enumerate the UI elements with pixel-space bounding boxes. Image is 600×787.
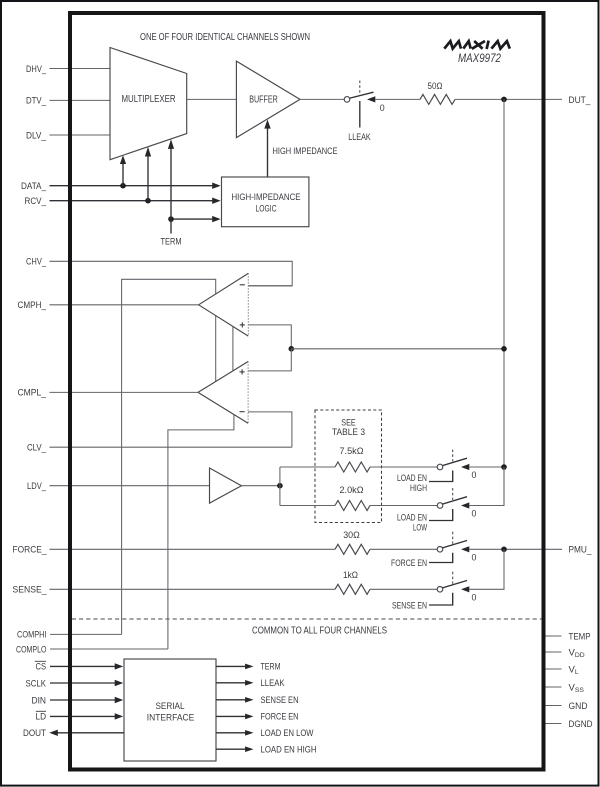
wire DATA_ branch to multiplexer (120, 155, 126, 186)
svg-text:CMPL_: CMPL_ (18, 388, 47, 399)
wire LOAD EN LOW switch to load junction (469, 467, 504, 506)
wire FORCE EN output (216, 714, 254, 720)
svg-text:SERIAL: SERIAL (156, 701, 185, 712)
wire LLEAK switch to 50ohm resistor (375, 98, 420, 100)
wire LDV junction to load resistors (279, 467, 281, 506)
label CLV_ (27, 443, 47, 454)
wire LOAD EN HIGH switch to DUT column (469, 466, 504, 468)
svg-text:TERM: TERM (261, 662, 281, 673)
svg-text:DATA_: DATA_ (21, 181, 47, 192)
label LOAD EN LOW output (261, 728, 314, 739)
wire comparator high plus input to DUT sense (248, 325, 291, 349)
switch LOAD EN LOW (429, 488, 469, 521)
wire COMPHI (50, 633, 122, 635)
svg-text:CS: CS (36, 662, 47, 673)
svg-text:HIGH IMPEDANCE: HIGH IMPEDANCE (273, 146, 338, 157)
svg-text:2.0kΩ: 2.0kΩ (340, 485, 364, 496)
wire SCLK input (50, 680, 123, 686)
pin VL (545, 664, 579, 676)
svg-text:HIGH-IMPEDANCE: HIGH-IMPEDANCE (232, 192, 301, 203)
svg-text:PMU_: PMU_ (569, 545, 593, 556)
resistor 1k (335, 570, 370, 594)
wire TERM output (216, 664, 254, 670)
pin VDD (545, 647, 585, 659)
svg-text:MULTIPLEXER: MULTIPLEXER (122, 94, 176, 105)
node LDV junction (277, 483, 283, 489)
svg-text:SCLK: SCLK (26, 678, 47, 689)
label LD (active low) (36, 711, 47, 722)
node PMU junction (501, 547, 507, 553)
label CS (active low) (35, 661, 46, 672)
svg-text:DIN: DIN (32, 695, 47, 706)
svg-text:1kΩ: 1kΩ (343, 570, 358, 581)
node DATA_ junction (120, 183, 126, 189)
wire COMPLO (50, 648, 168, 650)
buffer LDV driver (210, 468, 242, 503)
label TERM output (261, 662, 281, 673)
wire comparator low minus input (248, 412, 292, 447)
multiplexer MUX (110, 48, 187, 160)
wire CS input (50, 663, 123, 669)
label DLV_ (26, 130, 47, 141)
svg-text:MAX9972: MAX9972 (458, 53, 502, 65)
wire LD input (50, 713, 123, 719)
svg-text:COMPLO: COMPLO (16, 644, 47, 655)
label TERM (161, 237, 182, 248)
label ONE OF FOUR IDENTICAL CHANNELS SHOWN (140, 32, 310, 43)
wire SENSE EN switch to PMU junction (469, 549, 504, 589)
node TERM junction (168, 216, 174, 222)
wire TERM stub and branch to multiplexer (168, 139, 174, 233)
wire 30ohm to FORCE EN switch (370, 548, 437, 550)
svg-text:BUFFER: BUFFER (249, 95, 278, 106)
pin TEMP (545, 631, 591, 642)
svg-text:COMMON TO ALL FOUR CHANNELS: COMMON TO ALL FOUR CHANNELS (252, 625, 387, 636)
wire RCV_ branch to multiplexer (145, 147, 151, 201)
svg-text:DGND: DGND (569, 719, 593, 730)
wire 50ohm to DUT_ pin (455, 98, 562, 100)
label FORCE EN (391, 558, 427, 569)
comparator low (CMPL) (198, 362, 248, 424)
wire RCV_ input to high-impedance logic (50, 200, 213, 202)
label PMU_ (569, 545, 593, 556)
label SENSE EN output (261, 695, 299, 706)
wire multiplexer output to buffer (187, 98, 237, 100)
wire LLEAK output (216, 680, 254, 686)
wire TERM to high-impedance logic (171, 218, 213, 220)
label LOAD EN HIGH (397, 473, 427, 494)
svg-text:TEMP: TEMP (569, 631, 591, 642)
dashed box SEE TABLE 3 (315, 410, 382, 523)
svg-text:SENSE EN: SENSE EN (261, 695, 299, 706)
svg-text:CMPH_: CMPH_ (18, 300, 47, 311)
logo MAXIM (444, 41, 510, 49)
label 0 (FORCE EN contact) (472, 553, 477, 563)
svg-text:LOGIC: LOGIC (256, 204, 277, 215)
wire 7.5k resistor to LOAD EN HIGH switch (370, 466, 437, 468)
svg-text:HIGH: HIGH (410, 483, 427, 494)
svg-text:FORCE EN: FORCE EN (261, 712, 299, 723)
buffer U1 (236, 61, 300, 138)
label LDV_ (27, 481, 47, 492)
wire FORCE EN switch to PMU_ pin (469, 548, 562, 550)
wire comparator plus-input tie (232, 326, 234, 371)
svg-text:TABLE 3: TABLE 3 (332, 427, 365, 437)
label CMPH_ (18, 300, 47, 311)
svg-text:COMPHI: COMPHI (17, 630, 47, 641)
resistor 7.5k (335, 446, 370, 472)
wire DTV_ input (50, 99, 111, 101)
svg-text:DOUT: DOUT (23, 728, 46, 739)
svg-text:50Ω: 50Ω (428, 81, 443, 92)
svg-text:LLEAK: LLEAK (261, 678, 286, 689)
svg-text:DTV_: DTV_ (26, 96, 47, 107)
label SENSE_ (13, 585, 48, 596)
serial interface box (124, 659, 216, 761)
svg-text:LLEAK: LLEAK (348, 132, 371, 143)
svg-text:CHV_: CHV_ (26, 257, 47, 268)
wire to 2.0k resistor (280, 505, 335, 507)
wire COMPLO net vertical riser (168, 415, 234, 649)
wire LOAD EN HIGH output (216, 746, 254, 752)
wire LDV_ input (50, 485, 210, 487)
svg-text:DHV_: DHV_ (26, 64, 47, 75)
svg-text:SENSE EN: SENSE EN (392, 600, 427, 611)
dashed channel divider (72, 618, 542, 620)
switch SENSE EN (429, 572, 469, 605)
arrow TERM into high-impedance logic (212, 216, 221, 222)
label 0 (LOAD EN HIGH contact) (472, 470, 477, 480)
label MAX9972 (458, 53, 502, 65)
svg-text:DUT_: DUT_ (569, 95, 592, 106)
comparator high (CMPH) (199, 273, 249, 336)
wire CLV_ input (50, 446, 292, 448)
label CMPL_ (18, 388, 47, 399)
label COMMON TO ALL FOUR CHANNELS (252, 625, 387, 636)
node DUT sense junction (289, 346, 295, 352)
pin VSS (545, 682, 584, 694)
label 0 (LLEAK switch contact) (380, 103, 385, 113)
label DUT_ (569, 95, 592, 106)
node DUT junction (501, 97, 507, 103)
label LOAD EN HIGH output (261, 745, 317, 756)
node load junction (501, 464, 507, 470)
resistor 50ohm (420, 81, 455, 105)
svg-text:0: 0 (472, 509, 477, 519)
svg-text:CLV_: CLV_ (27, 443, 47, 454)
label LLEAK (348, 132, 371, 143)
svg-text:0: 0 (472, 470, 477, 480)
resistor 30ohm (335, 530, 370, 554)
wire comparator high minus input (248, 285, 292, 287)
svg-text:LD: LD (36, 712, 47, 723)
wire to 7.5k resistor (280, 466, 335, 468)
svg-text:LOAD EN LOW: LOAD EN LOW (261, 728, 314, 739)
wire SENSE EN output (216, 697, 254, 703)
label SCLK (26, 678, 47, 689)
node DUT column junction (501, 346, 507, 352)
wire DATA_ input to high-impedance logic (50, 185, 213, 187)
label 0 (SENSE EN contact) (472, 593, 477, 603)
wire DHV_ input (50, 68, 111, 70)
wire high-impedance control to buffer (264, 120, 270, 178)
wire CMPL_ output (50, 391, 199, 393)
switch LOAD EN HIGH (429, 450, 469, 482)
label SENSE EN (392, 600, 427, 611)
label LOAD EN LOW (397, 513, 427, 534)
pin DGND (545, 719, 593, 730)
node RCV_ junction (145, 198, 151, 204)
high-impedance logic box (222, 177, 309, 227)
wire DUT sense to DUT column (291, 348, 504, 350)
wire DUT sense to comparator low plus input (248, 349, 291, 371)
label FORCE_ (13, 545, 48, 556)
resistor 2.0k (335, 485, 370, 510)
svg-text:0: 0 (472, 593, 477, 603)
svg-text:30Ω: 30Ω (343, 530, 360, 541)
label RCV_ (25, 196, 47, 207)
arrow RCV_ into high-impedance logic (212, 198, 221, 204)
svg-text:7.5kΩ: 7.5kΩ (340, 446, 364, 457)
switch LLEAK (344, 81, 375, 128)
wire LOAD EN LOW output (216, 730, 254, 736)
svg-text:SENSE_: SENSE_ (13, 585, 48, 596)
svg-text:TERM: TERM (161, 237, 182, 248)
wire COMPHI net vertical riser (122, 279, 216, 634)
label DIN (32, 695, 47, 706)
svg-text:0: 0 (472, 553, 477, 563)
svg-text:FORCE_: FORCE_ (13, 545, 48, 556)
svg-text:LOAD EN HIGH: LOAD EN HIGH (261, 745, 317, 756)
label DHV_ (26, 64, 47, 75)
pin GND (545, 701, 588, 712)
label DTV_ (26, 96, 47, 107)
svg-text:GND: GND (569, 701, 588, 712)
svg-text:FORCE EN: FORCE EN (391, 558, 427, 569)
svg-text:INTERFACE: INTERFACE (147, 713, 195, 724)
label 0 (LOAD EN LOW contact) (472, 509, 477, 519)
svg-text:RCV_: RCV_ (25, 196, 47, 207)
wire FORCE_ input (50, 548, 336, 550)
IC boundary box (70, 13, 544, 770)
label HIGH IMPEDANCE (273, 146, 338, 157)
wire DOUT output (49, 730, 124, 736)
wire DUT column down to load switches (503, 99, 505, 505)
svg-text:DLV_: DLV_ (26, 130, 47, 141)
label FORCE EN output (261, 712, 299, 723)
wire LDV buffer output (241, 485, 280, 487)
label COMPHI (17, 630, 47, 641)
svg-text:ONE OF FOUR IDENTICAL CHANNELS: ONE OF FOUR IDENTICAL CHANNELS SHOWN (140, 32, 310, 43)
wire DLV_ input (50, 134, 111, 136)
svg-text:LDV_: LDV_ (27, 481, 47, 492)
wire buffer output to LLEAK switch (300, 98, 344, 100)
switch FORCE EN (429, 532, 469, 563)
label CHV_ (26, 257, 47, 268)
wire 1k to SENSE EN switch (370, 588, 437, 590)
wire CHV_ input (50, 261, 293, 286)
label LLEAK output (261, 678, 286, 689)
wire DIN input (50, 697, 123, 703)
wire CMPH_ output (50, 304, 199, 306)
svg-text:LOW: LOW (413, 523, 427, 534)
wire 2.0k resistor to LOAD EN LOW switch (370, 505, 437, 507)
label COMPLO (16, 644, 47, 655)
label DATA_ (21, 181, 47, 192)
arrow DATA_ into high-impedance logic (212, 183, 221, 189)
wire SENSE_ input (50, 588, 336, 590)
svg-text:0: 0 (380, 103, 385, 113)
label DOUT (23, 728, 46, 739)
